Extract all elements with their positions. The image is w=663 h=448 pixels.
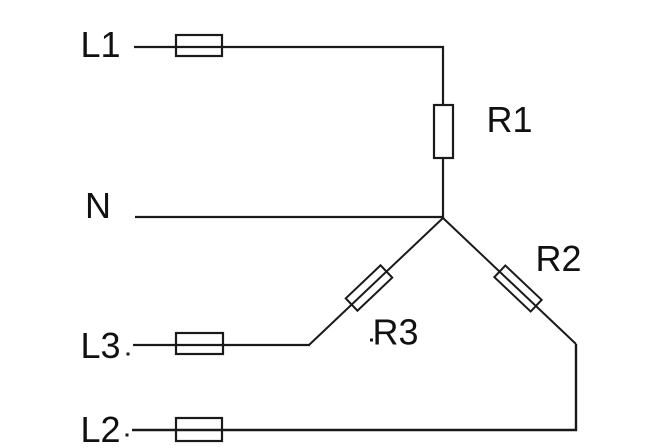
label L3 — [81, 325, 121, 366]
stray dot after L2 — [126, 434, 129, 437]
label L1 — [81, 24, 121, 65]
fuse F3 on L3 — [176, 333, 223, 354]
stray dot after L3 — [127, 353, 130, 356]
stray dot before R3 — [370, 339, 373, 342]
fuse F2 on L2 — [176, 418, 222, 441]
wire vertical right side — [575, 344, 577, 431]
svg-text:L2: L2 — [81, 409, 121, 448]
wire L3 horizontal — [133, 344, 310, 346]
label N — [85, 185, 111, 226]
wire L2 horizontal — [132, 429, 577, 431]
wire diagonal node to L3 corner — [309, 218, 443, 345]
svg-text:N: N — [85, 185, 111, 226]
resistor R1 — [434, 105, 453, 158]
label R1 — [487, 99, 533, 140]
svg-text:R2: R2 — [536, 238, 582, 279]
node junction — [442, 217, 444, 219]
label R2 — [536, 238, 582, 279]
label R3 — [373, 312, 419, 353]
wire L1 vertical drop — [442, 46, 444, 106]
resistor R3 — [346, 265, 393, 310]
svg-text:L1: L1 — [81, 24, 121, 65]
label L2 — [81, 409, 121, 448]
svg-text:L3: L3 — [81, 325, 121, 366]
wire R1 to node — [442, 158, 444, 218]
wire diagonal node to R2 corner — [443, 218, 576, 344]
wire L1 horizontal — [134, 46, 444, 48]
svg-text:R3: R3 — [373, 312, 419, 353]
svg-text:R1: R1 — [487, 99, 533, 140]
resistor R2 — [494, 266, 541, 312]
fuse F1 on L1 — [176, 35, 222, 56]
wire N horizontal — [135, 216, 444, 218]
